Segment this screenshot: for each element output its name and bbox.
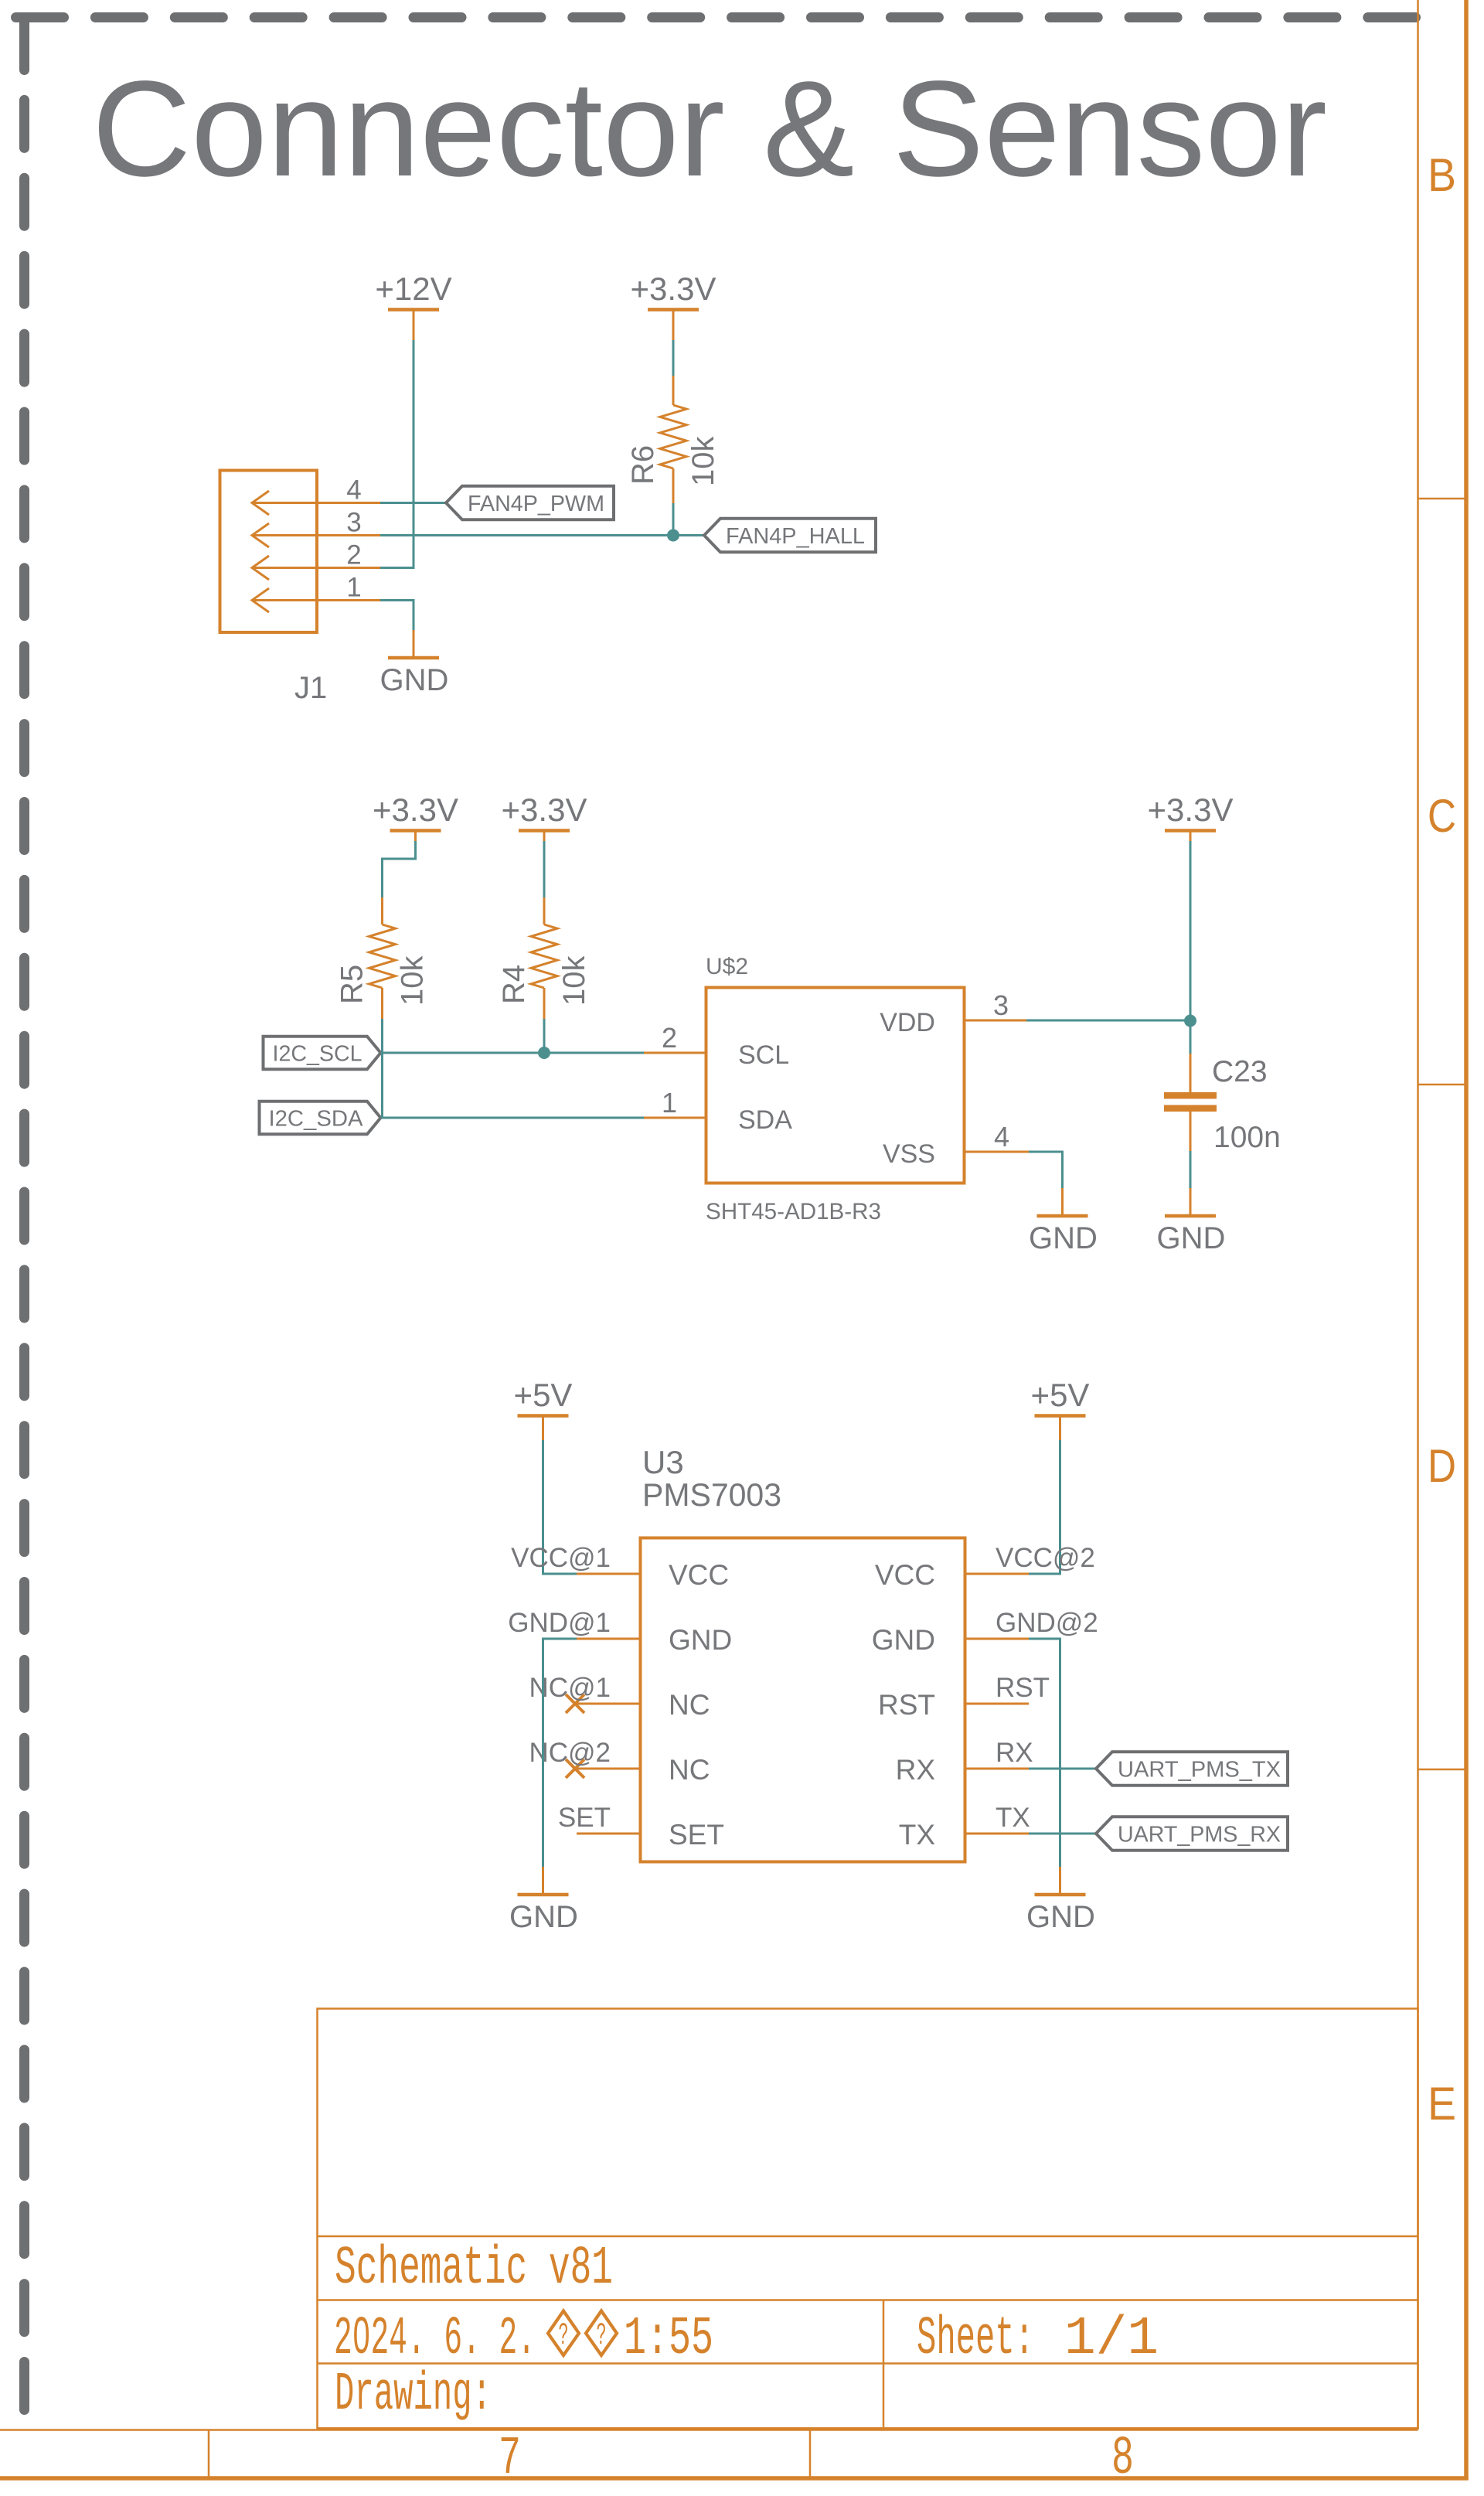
svg-text:3: 3 — [993, 989, 1009, 1021]
svg-text:UART_PMS_TX: UART_PMS_TX — [1118, 1758, 1281, 1783]
svg-text:NC: NC — [669, 1689, 710, 1721]
svg-text:+3.3V: +3.3V — [631, 271, 716, 307]
pin VCC@1 lead — [577, 1573, 640, 1575]
svg-text:VCC@2: VCC@2 — [996, 1543, 1095, 1573]
svg-text:Connector & Sensor: Connector & Sensor — [92, 53, 1327, 205]
pin lead right row 2036 — [965, 1573, 1029, 1575]
resistor R4 — [497, 897, 591, 1019]
wire +3.3V jog to R5 — [383, 841, 416, 897]
svg-text:UART_PMS_RX: UART_PMS_RX — [1118, 1823, 1281, 1847]
ground — [1029, 1188, 1098, 1255]
wire — [543, 897, 546, 899]
svg-text:B: B — [1428, 149, 1456, 201]
svg-text:+3.3V: +3.3V — [502, 792, 587, 828]
node FAN4P_PWM — [446, 486, 614, 520]
resistor R6 — [626, 376, 720, 503]
pin lead right row 2288 — [965, 1768, 1029, 1770]
svg-text:1/1: 1/1 — [1064, 2309, 1159, 2370]
svg-text:TX: TX — [996, 1803, 1030, 1833]
ground — [509, 1867, 578, 1934]
sheet dashed border left — [19, 22, 29, 2410]
pin NC@1 lead + X — [577, 1703, 640, 1705]
wire — [543, 1019, 546, 1053]
pin 1 lead — [644, 1117, 706, 1119]
svg-text:I2C_SCL: I2C_SCL — [273, 1042, 362, 1067]
power +5V — [514, 1377, 573, 1440]
wire +3.3V to R4 — [543, 841, 546, 897]
power +3.3V — [631, 271, 716, 340]
wire VDD to C23 — [1026, 1020, 1190, 1022]
svg-text:+3.3V: +3.3V — [373, 792, 458, 828]
svg-text:4: 4 — [346, 475, 361, 506]
svg-text:GND: GND — [1026, 1900, 1095, 1934]
wire +3.3V down to junction — [1190, 841, 1192, 1020]
title block: missing glyph 2 — [586, 2311, 617, 2356]
wire GND@1 to ground — [543, 1639, 577, 1867]
pin 4 VSS lead — [965, 1151, 1030, 1153]
frame column divider 6/7 — [208, 2430, 210, 2478]
svg-text:VSS: VSS — [883, 1139, 935, 1169]
pin GND@1 lead — [577, 1638, 640, 1640]
svg-text:1: 1 — [662, 1087, 677, 1119]
pin lead right row 2204 — [965, 1703, 1029, 1705]
wire — [381, 1018, 383, 1020]
svg-text:Sheet:: Sheet: — [917, 2309, 1034, 2370]
svg-text:FAN4P_PWM: FAN4P_PWM — [468, 492, 604, 516]
svg-text:U$2: U$2 — [706, 954, 748, 979]
power +5V — [1031, 1377, 1090, 1440]
svg-text:3: 3 — [346, 508, 361, 538]
svg-text:2: 2 — [662, 1022, 677, 1054]
svg-text:Schematic v81: Schematic v81 — [335, 2239, 613, 2300]
svg-text:NC@1: NC@1 — [529, 1673, 611, 1703]
svg-text:GND: GND — [1157, 1221, 1226, 1255]
svg-text:R5: R5 — [335, 965, 369, 1004]
IC U3 PMS7003 — [641, 1444, 965, 1862]
frame row divider B/C — [1418, 498, 1467, 500]
svg-text:VCC@1: VCC@1 — [511, 1543, 611, 1573]
svg-text:PMS7003: PMS7003 — [642, 1476, 781, 1513]
node UART_PMS_TX — [1096, 1752, 1288, 1786]
node UART_PMS_RX — [1096, 1817, 1288, 1851]
svg-text:Drawing:: Drawing: — [335, 2365, 492, 2426]
pin 3 VDD lead — [965, 1020, 1027, 1022]
sheet dashed border top — [16, 12, 1416, 22]
svg-text:GND: GND — [872, 1624, 935, 1656]
wire pin1 to ground — [380, 601, 414, 631]
capacitor C23 — [1164, 1054, 1281, 1154]
svg-text:+5V: +5V — [514, 1377, 573, 1413]
svg-text:10k: 10k — [686, 436, 720, 486]
pin SET lead — [577, 1833, 640, 1835]
power +3.3V — [502, 792, 587, 841]
svg-text:GND: GND — [1029, 1221, 1098, 1255]
svg-text:NC: NC — [669, 1754, 710, 1786]
wire pin4 — [380, 502, 446, 504]
ground — [1026, 1867, 1095, 1934]
ground — [380, 630, 449, 697]
wire +5V to VCC@1 — [543, 1440, 577, 1574]
svg-text:1:55: 1:55 — [624, 2309, 713, 2370]
svg-text:RST: RST — [996, 1673, 1050, 1703]
svg-text:7: 7 — [499, 2429, 521, 2490]
frame bottom strip line — [0, 2429, 1418, 2431]
svg-text:?: ? — [597, 2319, 607, 2354]
junction VDD/C23 — [1184, 1015, 1196, 1027]
svg-text:SET: SET — [558, 1803, 611, 1833]
svg-text:VDD: VDD — [880, 1008, 935, 1037]
frame row divider D/E — [1418, 1769, 1467, 1771]
svg-text:?: ? — [559, 2319, 569, 2354]
wire — [672, 503, 675, 536]
wire — [381, 897, 383, 899]
svg-text:SHT45-AD1B-R3: SHT45-AD1B-R3 — [706, 1199, 881, 1224]
resistor R5 — [335, 897, 430, 1019]
node FAN4P_HALL — [704, 519, 876, 553]
wire +5V to VCC@2 — [1025, 1440, 1060, 1574]
svg-text:U3: U3 — [642, 1444, 684, 1480]
svg-text:GND@2: GND@2 — [996, 1608, 1098, 1638]
pin 2 lead — [644, 1052, 706, 1054]
pin lead right row 2372 — [965, 1833, 1029, 1835]
svg-text:10k: 10k — [396, 955, 430, 1006]
wire TX to flag — [1029, 1833, 1096, 1835]
svg-text:D: D — [1428, 1440, 1456, 1492]
frame row divider C/D — [1418, 1084, 1467, 1086]
svg-text:GND: GND — [669, 1624, 732, 1656]
svg-text:2: 2 — [346, 540, 361, 570]
svg-text:RX: RX — [996, 1738, 1033, 1768]
connector J1 — [220, 471, 381, 633]
node I2C_SDA — [260, 1102, 381, 1135]
svg-text:4: 4 — [994, 1121, 1009, 1153]
svg-text:RX: RX — [896, 1754, 935, 1786]
svg-text:FAN4P_HALL: FAN4P_HALL — [726, 524, 865, 549]
ground — [1157, 1188, 1226, 1255]
wire junction to C23 — [1190, 1020, 1192, 1054]
svg-text:+12V: +12V — [375, 271, 451, 307]
wire pin3 / FAN4P_HALL net — [380, 534, 704, 536]
svg-text:I2C_SDA: I2C_SDA — [269, 1107, 364, 1132]
title block frame — [318, 2009, 1418, 2429]
svg-text:SCL: SCL — [738, 1040, 789, 1070]
svg-text:R6: R6 — [626, 445, 660, 485]
svg-text:E: E — [1428, 2078, 1456, 2130]
svg-text:C: C — [1428, 790, 1456, 842]
svg-text:+3.3V: +3.3V — [1148, 792, 1234, 828]
pin NC@2 lead + X — [577, 1768, 640, 1770]
wire RX to flag — [1029, 1768, 1096, 1770]
node I2C_SCL — [264, 1037, 381, 1070]
wire I2C_SDA — [381, 1117, 645, 1119]
svg-text:100n: 100n — [1213, 1121, 1281, 1154]
wire — [672, 340, 675, 376]
svg-text:J1: J1 — [294, 671, 327, 705]
frame outer line bottom — [0, 2476, 1469, 2481]
wire I2C_SCL — [381, 1052, 645, 1054]
title block: missing glyph 1 — [548, 2311, 579, 2356]
svg-text:1: 1 — [346, 573, 361, 603]
svg-text:C23: C23 — [1212, 1055, 1268, 1088]
svg-text:GND: GND — [380, 663, 449, 697]
svg-text:SET: SET — [669, 1819, 724, 1851]
power +3.3V — [373, 792, 458, 841]
svg-text:RST: RST — [878, 1689, 935, 1721]
junction — [667, 530, 679, 542]
svg-text:VCC: VCC — [669, 1559, 729, 1591]
power +3.3V — [1148, 792, 1234, 841]
pin lead right row 2120 — [965, 1638, 1029, 1640]
svg-text:NC@2: NC@2 — [529, 1738, 611, 1768]
svg-text:GND: GND — [509, 1900, 578, 1934]
svg-text:+5V: +5V — [1031, 1377, 1090, 1413]
frame inner line right — [1417, 0, 1419, 2430]
junction R4/SCL — [538, 1047, 550, 1059]
wire +12V to pin2 — [380, 340, 414, 568]
svg-text:SDA: SDA — [738, 1105, 792, 1135]
wire GND@2 to ground — [1029, 1639, 1060, 1867]
power +12V — [375, 271, 451, 340]
svg-text:TX: TX — [899, 1819, 935, 1851]
wire VSS to ground — [1029, 1152, 1063, 1188]
wire C23 to ground — [1190, 1151, 1192, 1188]
svg-text:R4: R4 — [497, 965, 531, 1004]
IC U$2 SHT45 — [706, 954, 965, 1224]
frame outer line right — [1464, 0, 1469, 2481]
svg-text:10k: 10k — [557, 955, 591, 1006]
frame column divider 7/8 — [809, 2430, 812, 2478]
svg-text:8: 8 — [1111, 2429, 1134, 2490]
svg-text:VCC: VCC — [875, 1559, 935, 1591]
svg-text:GND@1: GND@1 — [508, 1608, 611, 1638]
wire R5 to SDA net — [381, 1019, 383, 1118]
